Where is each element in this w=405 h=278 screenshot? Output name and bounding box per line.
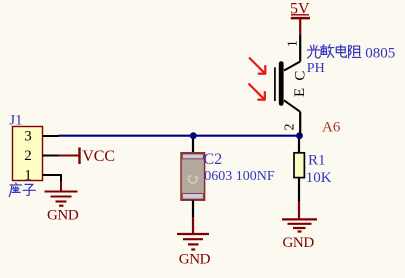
svg-text:E: E — [292, 88, 308, 97]
svg-text:PH: PH — [307, 61, 325, 76]
svg-text:3: 3 — [24, 128, 32, 144]
svg-text:GND: GND — [179, 251, 211, 267]
svg-text:0805: 0805 — [365, 46, 395, 62]
svg-text:1: 1 — [286, 40, 301, 47]
svg-text:GND: GND — [47, 208, 79, 224]
svg-text:VCC: VCC — [82, 148, 115, 165]
svg-text:C2: C2 — [204, 151, 223, 168]
svg-text:J1: J1 — [9, 113, 22, 129]
svg-text:GND: GND — [283, 235, 315, 251]
svg-text:10K: 10K — [306, 170, 332, 186]
svg-text:A6: A6 — [322, 120, 341, 136]
svg-text:1: 1 — [24, 168, 32, 184]
svg-text:0603 100NF: 0603 100NF — [204, 169, 275, 184]
svg-text:2: 2 — [283, 124, 298, 131]
svg-text:2: 2 — [24, 148, 32, 164]
svg-text:R1: R1 — [308, 152, 326, 168]
